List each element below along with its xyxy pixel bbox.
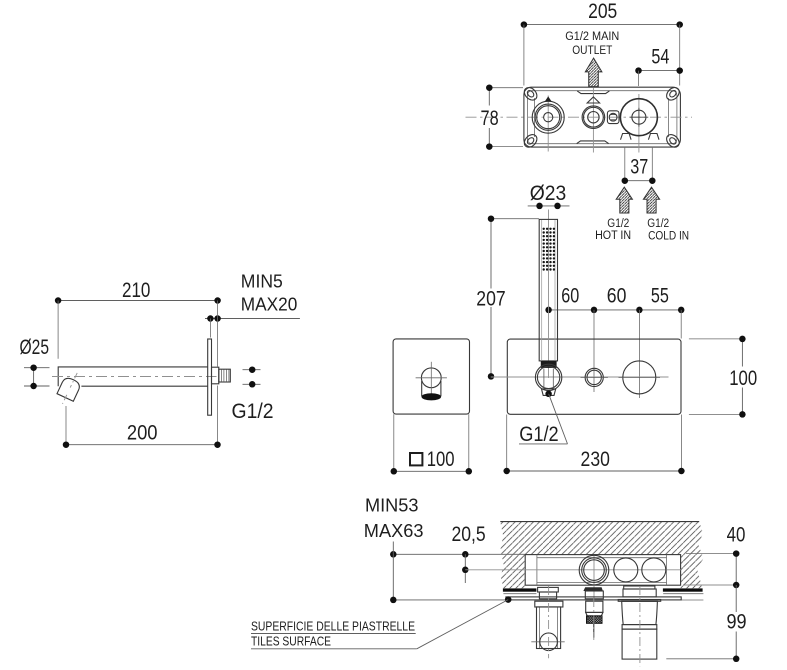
tile under-line right [663, 593, 703, 595]
svg-text:OUTLET: OUTLET [572, 45, 612, 57]
svg-text:SUPERFICIE DELLE PIASTRELLE: SUPERFICIE DELLE PIASTRELLE [251, 618, 415, 633]
svg-text:MAX20: MAX20 [241, 293, 297, 314]
label G1/2 MAIN OUTLET [565, 31, 619, 57]
arrow hot in (hatched, up) [616, 187, 632, 213]
wall top line [500, 521, 699, 523]
holder side view [531, 586, 564, 658]
box bottom notch [577, 141, 609, 144]
svg-text:60: 60 [607, 284, 627, 308]
svg-text:TILES SURFACE: TILES SURFACE [251, 634, 331, 649]
hand shower handle shaft [539, 210, 557, 379]
svg-text:40: 40 [727, 523, 746, 547]
svg-text:210: 210 [122, 278, 150, 302]
box top notch [577, 91, 609, 94]
dim line valve axis [462, 567, 469, 574]
mixer handle front [619, 361, 661, 394]
dim 99 [666, 585, 746, 662]
holder tab [542, 389, 556, 396]
label superficie delle piastrelle [251, 618, 417, 648]
dim 60 60 55 [545, 284, 684, 398]
inlet tab left [621, 134, 632, 140]
label square 100 [410, 447, 455, 471]
label MIN53 MAX63 [364, 495, 424, 541]
valve right (thermostatic, large) [620, 94, 657, 153]
dim 100 right [689, 336, 757, 418]
valve middle (diverter) [582, 88, 605, 153]
dim 100 below square [391, 414, 473, 474]
svg-text:78: 78 [481, 106, 499, 130]
face plate side view [506, 597, 681, 600]
screw BR [664, 132, 682, 150]
dim tiles surface line [390, 596, 511, 603]
spout tube [58, 367, 208, 386]
dim 205 [521, 0, 683, 86]
svg-text:100: 100 [427, 447, 455, 471]
dim 78 [481, 84, 523, 149]
svg-text:54: 54 [651, 45, 669, 69]
tile bar right [663, 588, 703, 591]
thread dia ticks [243, 366, 261, 387]
wall hatch [500, 522, 703, 589]
box body outer [524, 87, 681, 147]
wall flange plate [208, 339, 212, 415]
svg-text:100: 100 [729, 366, 757, 390]
box side view body [525, 555, 680, 586]
tile bar left [503, 588, 537, 591]
svg-text:Ø23: Ø23 [530, 181, 567, 205]
grip band [541, 361, 557, 368]
dim diameter 23 [528, 181, 570, 209]
dim 230 [503, 415, 684, 475]
dim 37 [622, 147, 656, 184]
arrow cold in (hatched, up) [643, 187, 659, 213]
svg-text:MIN53: MIN53 [365, 495, 419, 516]
valve left (cartridge) [532, 96, 564, 152]
screw BL [522, 132, 540, 150]
dim 207 [476, 215, 539, 379]
svg-text:60: 60 [561, 284, 579, 308]
svg-text:207: 207 [476, 287, 505, 311]
svg-text:20,5: 20,5 [451, 522, 485, 546]
label MIN5 MAX20 [241, 270, 297, 314]
screw TL [522, 85, 540, 103]
label G1/2 COLD IN [647, 218, 689, 242]
box centerline [465, 569, 681, 571]
connector neck [212, 367, 219, 384]
svg-text:Ø25: Ø25 [20, 335, 50, 359]
dim 40 [683, 523, 745, 589]
screw TR [664, 85, 682, 103]
valve body 3 side [642, 558, 666, 582]
svg-text:99: 99 [726, 610, 746, 634]
dim MIN5-MAX20 ticks [205, 301, 300, 367]
label G1/2 HOT IN [595, 218, 631, 242]
spout centerline [52, 376, 217, 378]
plate centerline [491, 376, 669, 378]
svg-text:G1/2: G1/2 [519, 422, 559, 446]
holder escutcheon circles [535, 364, 561, 390]
valve body 1 side [579, 555, 609, 599]
dim line box top [390, 542, 525, 600]
dim 54 [635, 45, 683, 86]
svg-text:COLD IN: COLD IN [648, 231, 689, 243]
inlet tab right [648, 134, 659, 140]
mixer handle side view [618, 586, 661, 666]
spout square plate 100x100 [393, 339, 469, 414]
svg-text:37: 37 [630, 155, 648, 179]
svg-text:G1/2 MAIN: G1/2 MAIN [565, 31, 619, 43]
svg-text:MIN5: MIN5 [241, 270, 283, 291]
diverter knob front [581, 368, 608, 386]
face plate 230x100 [507, 339, 681, 414]
arrow main outlet (hatched, up) [585, 58, 602, 87]
svg-text:55: 55 [651, 284, 669, 308]
svg-text:205: 205 [588, 0, 617, 23]
leader tiles surface [417, 600, 508, 649]
shower outlet side view [583, 587, 603, 640]
svg-text:HOT IN: HOT IN [595, 230, 631, 242]
dim 210 [55, 278, 221, 359]
svg-text:230: 230 [581, 447, 610, 471]
box body inner rim [527, 91, 677, 144]
box end cap lines [534, 98, 536, 137]
box centerline horizontal [466, 116, 693, 118]
thread G1/2 [219, 369, 231, 382]
dim 200 [63, 386, 221, 448]
svg-text:G1/2: G1/2 [607, 218, 629, 230]
valve body 2 side [614, 558, 638, 582]
svg-text:MAX63: MAX63 [364, 520, 424, 541]
badge logo [607, 111, 619, 124]
svg-text:200: 200 [127, 420, 158, 444]
svg-text:G1/2: G1/2 [647, 218, 669, 230]
handle spray dot grid [543, 228, 556, 271]
dim diameter 25 ticks [24, 364, 50, 389]
svg-text:G1/2: G1/2 [232, 399, 274, 423]
spout nozzle tip (angled) [57, 373, 82, 404]
leader G1/2 holder [519, 391, 568, 446]
